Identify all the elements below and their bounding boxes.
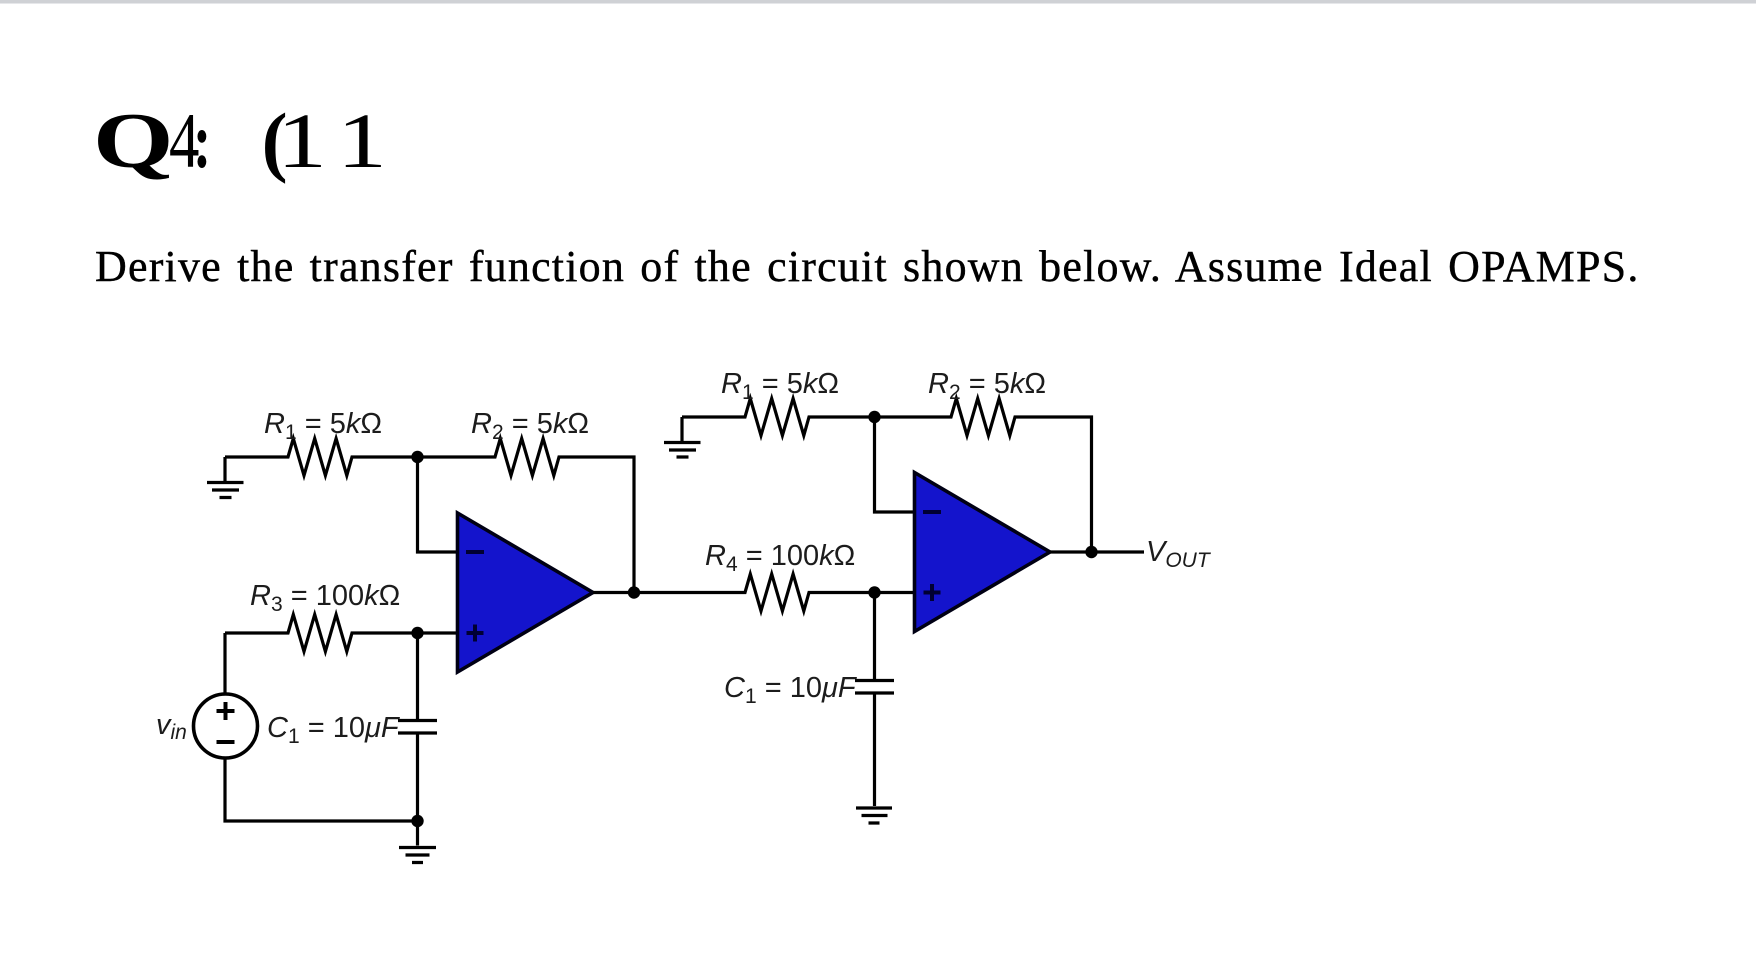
svg-text:C1 = 10μF: C1 = 10μF xyxy=(267,712,401,748)
svg-text:vin: vin xyxy=(156,709,187,744)
svg-text:R3 = 100kΩ: R3 = 100kΩ xyxy=(250,580,400,616)
svg-text:R2 = 5kΩ: R2 = 5kΩ xyxy=(471,408,589,444)
svg-text:R1 = 5kΩ: R1 = 5kΩ xyxy=(264,408,382,444)
svg-text:R2 = 5kΩ: R2 = 5kΩ xyxy=(928,368,1046,404)
svg-text:R1 = 5kΩ: R1 = 5kΩ xyxy=(721,368,839,404)
svg-text:R4 = 100kΩ: R4 = 100kΩ xyxy=(705,540,855,576)
svg-text:C1 = 10μF: C1 = 10μF xyxy=(724,672,858,708)
svg-text:VOUT: VOUT xyxy=(1146,536,1212,572)
